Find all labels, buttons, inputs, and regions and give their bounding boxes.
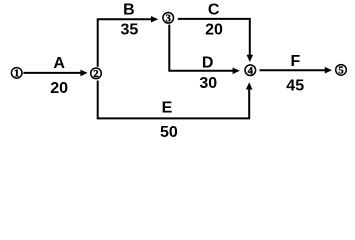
svg-text:45: 45 [286, 77, 304, 94]
svg-text:3: 3 [165, 13, 171, 25]
svg-text:1: 1 [14, 68, 19, 80]
svg-text:4: 4 [248, 65, 254, 77]
svg-text:35: 35 [121, 22, 139, 39]
svg-text:C: C [208, 1, 220, 18]
svg-text:F: F [291, 53, 301, 70]
svg-text:A: A [53, 55, 65, 72]
svg-text:E: E [162, 100, 173, 117]
svg-text:2: 2 [93, 68, 98, 80]
svg-text:B: B [123, 2, 135, 19]
svg-text:5: 5 [338, 65, 343, 77]
svg-text:50: 50 [160, 124, 178, 141]
svg-text:D: D [202, 55, 214, 72]
svg-text:20: 20 [205, 22, 223, 39]
svg-text:20: 20 [50, 80, 68, 97]
svg-text:30: 30 [199, 75, 217, 92]
